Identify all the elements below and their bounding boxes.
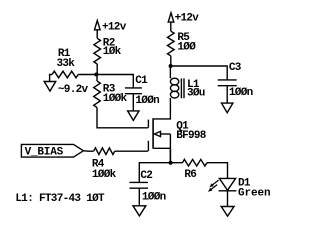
- capacitor C2: [129, 182, 148, 188]
- svg-text:L1: FT37-43 1ØT: L1: FT37-43 1ØT: [15, 193, 105, 205]
- resistor R6: [182, 159, 207, 166]
- svg-text:~9.2v: ~9.2v: [58, 84, 89, 96]
- capacitor C1: [125, 88, 142, 94]
- wire R6 to D1: [207, 163, 228, 179]
- ground (under C2): [133, 206, 146, 216]
- svg-text:Green: Green: [238, 187, 271, 199]
- svg-text:1ØØn: 1ØØn: [229, 87, 253, 99]
- wire node A to R3 top: [96, 75, 98, 82]
- ground (left, at R1): [44, 82, 56, 92]
- wire node B to L1 top: [169, 66, 171, 78]
- wire C2 bottom to ground: [138, 188, 140, 206]
- node C junction dot: [169, 161, 173, 165]
- svg-text:+12v: +12v: [175, 13, 200, 25]
- capacitor C3: [218, 80, 237, 86]
- svg-text:1Øk: 1Øk: [103, 46, 122, 58]
- svg-text:3Øu: 3Øu: [187, 88, 205, 100]
- wire R1 right lead to node A: [78, 74, 96, 76]
- wire R5 bottom to node B: [170, 56, 172, 66]
- svg-text:33k: 33k: [57, 58, 76, 70]
- wire node C to C2: [139, 163, 170, 182]
- svg-text:1ØØk: 1ØØk: [103, 93, 128, 105]
- wire C1 bottom to ground: [132, 94, 134, 111]
- wire R3 bottom to gate 1: [97, 108, 148, 128]
- wire L1 bottom to Q1 drain: [154, 98, 171, 119]
- svg-text:1ØØn: 1ØØn: [135, 95, 159, 107]
- wire D1 cathode to ground: [227, 191, 229, 207]
- resistor R2: [94, 38, 101, 64]
- svg-text:1ØØ: 1ØØ: [177, 42, 196, 54]
- wire node C to R6: [171, 162, 183, 164]
- svg-text:C3: C3: [229, 62, 242, 74]
- node B junction dot: [169, 64, 173, 68]
- power +12v symbol (left): [95, 21, 101, 39]
- power +12v symbol (right): [168, 13, 174, 31]
- transistor Q1 dual-gate MOSFET BF998: [148, 118, 170, 163]
- svg-text:1ØØk: 1ØØk: [92, 169, 117, 181]
- wire R2 bottom to node A: [96, 64, 98, 75]
- node A junction dot: [94, 73, 98, 77]
- inductor L1: [170, 78, 184, 98]
- ground (under D1): [221, 207, 234, 217]
- svg-text:C1: C1: [135, 75, 148, 87]
- svg-text:1ØØn: 1ØØn: [142, 191, 166, 203]
- svg-text:V_BIAS: V_BIAS: [25, 146, 64, 158]
- wire C3 bottom to ground: [226, 86, 228, 103]
- LED D1: [208, 178, 236, 191]
- resistor R1: [52, 71, 78, 78]
- ground (under C3): [222, 103, 233, 113]
- resistor R3: [94, 81, 101, 108]
- wire Q1 source to node C: [169, 148, 171, 162]
- svg-text:R6: R6: [184, 169, 196, 181]
- svg-text:BF998: BF998: [176, 130, 207, 142]
- wire node B to C3: [171, 66, 228, 80]
- net flag V_BIAS: [21, 144, 83, 157]
- wire R4 to gate 2: [115, 150, 148, 152]
- svg-text:+12v: +12v: [102, 21, 127, 33]
- svg-text:C2: C2: [140, 170, 152, 182]
- wire R1 left lead: [50, 75, 53, 82]
- wire V_BIAS to R4: [83, 150, 93, 152]
- resistor R5: [168, 31, 175, 56]
- resistor R4: [94, 148, 115, 155]
- ground (under C1): [128, 111, 139, 121]
- wire node A to C1: [96, 75, 133, 88]
